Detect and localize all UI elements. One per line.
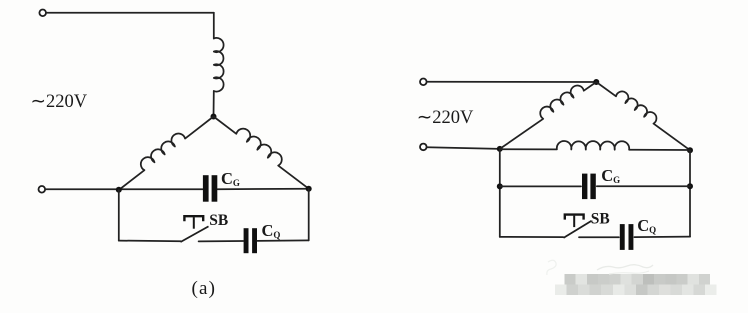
faint handwriting scribble above watermark (597, 265, 653, 270)
capacitor CG (left circuit, running capacitor) (203, 175, 209, 202)
wire L2 to capacitor CG (46, 188, 203, 190)
winding W1 (vertical starting winding) (214, 38, 224, 92)
svg-text:CG: CG (601, 166, 620, 185)
terminal R2 (right circuit bottom supply) (420, 144, 427, 151)
winding W5 (upper-right side) (596, 82, 690, 150)
svg-text:∼220V: ∼220V (31, 92, 88, 112)
node N8 (CG rail right) (687, 183, 693, 189)
svg-text:CG: CG (221, 169, 240, 188)
node N7 (CG rail left) (497, 183, 503, 189)
svg-text:CQ: CQ (262, 221, 281, 240)
node N2 (left bottom junction) (116, 187, 122, 193)
wire right riser down (689, 150, 691, 236)
capacitor CQ (right circuit, starting capacitor) (620, 224, 625, 250)
terminal L2 (left circuit bottom supply) (39, 186, 46, 193)
node N5 (left corner junction) (497, 146, 503, 152)
svg-text:SB: SB (591, 211, 610, 228)
wire corner down to winding W1 (213, 13, 215, 39)
wire W1 to center node (213, 91, 215, 117)
winding W4 (upper-left side) (500, 82, 597, 149)
terminal L1 (left circuit top supply) (39, 10, 46, 17)
svg-text:CQ: CQ (637, 216, 656, 235)
wire to switch SB (119, 240, 181, 243)
wire R2 to left corner (427, 147, 500, 149)
switch SB (push button, left circuit) (184, 216, 203, 221)
svg-text:(a): (a) (192, 278, 217, 299)
wire CG to N8 (597, 185, 690, 187)
terminal R1 (right circuit top supply) (420, 79, 427, 86)
node N6 (right corner junction) (687, 147, 693, 153)
switch SB (push button, right circuit) (565, 215, 584, 220)
wire N2 down (118, 190, 120, 241)
wire CQ to right riser (634, 236, 690, 239)
capacitor CG (right circuit, running capacitor) (582, 174, 587, 200)
wire switch to capacitor CQ (199, 240, 244, 242)
wire CQ to right riser (257, 239, 308, 242)
wire right riser up to N3 (308, 189, 310, 241)
svg-text:∼220V: ∼220V (417, 108, 474, 128)
node N1 (apex junction, left circuit) (211, 114, 217, 120)
winding W2 (left diagonal) (119, 117, 214, 191)
wire R1 to apex (427, 81, 596, 83)
watermark mosaic block (pixelated censor) (555, 274, 717, 295)
winding W3 (right diagonal) (214, 117, 309, 189)
wire L1 to corner (47, 12, 214, 14)
svg-text:SB: SB (209, 212, 228, 229)
winding W6 (bottom horizontal) (500, 141, 690, 150)
wire left riser down (499, 149, 501, 237)
wire CG to node N3 (218, 188, 309, 191)
wire switch to capacitor CQ (right) (579, 236, 619, 238)
capacitor CQ (left circuit, starting capacitor) (244, 228, 249, 253)
wire to switch SB (right circuit) (500, 236, 564, 238)
node N4 (apex, right circuit) (593, 79, 599, 85)
node N3 (right bottom junction) (306, 186, 312, 192)
wire N7 to capacitor CG (500, 185, 581, 187)
